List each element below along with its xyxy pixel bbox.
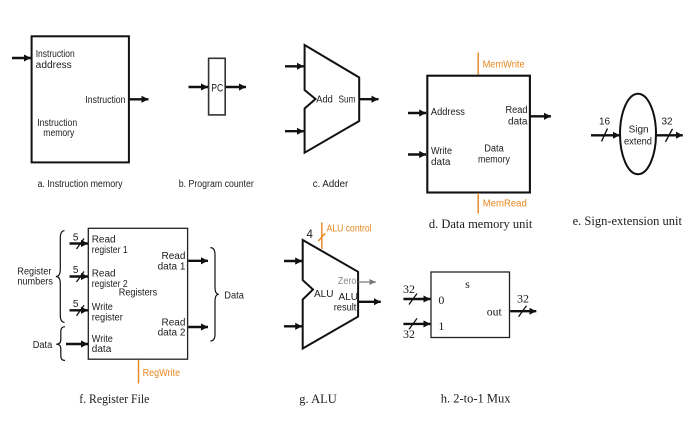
svg-text:f. Register File: f. Register File (79, 392, 149, 406)
svg-text:32: 32 (403, 327, 415, 341)
svg-text:data 2: data 2 (158, 327, 186, 338)
wire: PC output arrow (226, 86, 247, 88)
svg-text:5: 5 (73, 233, 79, 244)
brace: register numbers group (56, 231, 65, 323)
svg-text:1: 1 (438, 319, 444, 333)
svg-text:ALU control: ALU control (327, 224, 372, 235)
svg-text:Add: Add (316, 95, 333, 106)
sign-extension ellipse (e) (620, 94, 656, 174)
svg-text:MemRead: MemRead (483, 199, 527, 210)
program counter box PC (b) (209, 58, 226, 115)
adder body (c) (305, 45, 360, 153)
svg-text:0: 0 (438, 293, 444, 307)
svg-text:Read: Read (161, 251, 185, 262)
bus slash mux input 0 (409, 294, 417, 305)
svg-text:RegWrite: RegWrite (143, 368, 181, 379)
svg-text:c. Adder: c. Adder (313, 179, 349, 190)
brace: data outputs group (210, 248, 218, 341)
svg-text:Sign: Sign (629, 125, 649, 136)
wire: ALU input arrow top (284, 260, 302, 262)
brace: data input (56, 327, 65, 361)
register file box (f) (88, 228, 187, 359)
svg-text:register: register (92, 312, 124, 323)
svg-text:numbers: numbers (17, 276, 53, 287)
mux box (h) (431, 272, 510, 338)
svg-text:Registers: Registers (119, 288, 158, 299)
bus slash 5 (77, 305, 85, 316)
wire: adder sum output arrow (360, 98, 379, 100)
wire: instruction output arrow (130, 98, 149, 100)
svg-text:extend: extend (624, 137, 652, 148)
svg-text:d. Data memory unit: d. Data memory unit (429, 217, 533, 231)
wire: mux output arrow (510, 310, 536, 312)
wire: adder input arrow bottom (285, 130, 304, 132)
svg-text:ALU: ALU (314, 289, 333, 300)
wire: MemRead control line (477, 193, 479, 214)
bus slash 5 (77, 272, 85, 283)
svg-text:b. Program counter: b. Program counter (179, 179, 255, 190)
wire: read data output arrow (530, 115, 551, 117)
svg-text:Data: Data (224, 291, 244, 302)
svg-text:Address: Address (431, 107, 465, 118)
bus slash output (666, 129, 673, 142)
svg-text:Read: Read (506, 105, 528, 116)
svg-text:Read: Read (92, 235, 116, 246)
wire: ALU input arrow bottom (284, 325, 302, 327)
svg-text:16: 16 (599, 117, 611, 128)
wire: write register input arrow (70, 309, 89, 311)
wire: ALU result output arrow (358, 301, 381, 303)
svg-text:data: data (92, 344, 112, 355)
wire: adder input arrow top (285, 65, 304, 67)
svg-text:PC: PC (211, 83, 223, 95)
wire: read data 2 output arrow (188, 326, 208, 328)
svg-text:Write: Write (92, 302, 113, 313)
svg-text:Data: Data (33, 340, 53, 351)
wire: sign-extend output arrow (656, 134, 683, 136)
svg-text:32: 32 (517, 292, 529, 306)
bus slash ALU control (318, 233, 325, 241)
svg-text:5: 5 (73, 299, 79, 310)
wire: read register 2 input arrow (70, 275, 89, 277)
svg-text:a. Instruction memory: a. Instruction memory (38, 179, 123, 190)
svg-text:out: out (487, 305, 503, 319)
svg-text:Write: Write (431, 146, 452, 157)
wire: address input arrow (408, 112, 426, 114)
bus slash input (602, 129, 608, 142)
svg-text:5: 5 (73, 265, 79, 276)
wire: MemWrite control line (477, 53, 479, 75)
svg-text:Data: Data (484, 144, 504, 155)
wire: read register 1 input arrow (70, 242, 89, 244)
svg-text:register 1: register 1 (92, 245, 128, 256)
svg-text:e. Sign-extension unit: e. Sign-extension unit (573, 214, 683, 228)
ALU body (g) (303, 240, 358, 349)
svg-text:Sum: Sum (339, 95, 356, 106)
wire: write data input arrow (66, 343, 88, 345)
data memory box (d) (427, 76, 530, 193)
bus slash 5 (77, 239, 85, 250)
wire: mux input 0 arrow (403, 298, 430, 300)
wire: mux input 1 arrow (403, 323, 430, 325)
svg-text:Zero: Zero (338, 276, 357, 287)
svg-text:memory: memory (478, 155, 510, 166)
svg-text:memory: memory (43, 128, 74, 139)
svg-text:Read: Read (92, 268, 116, 279)
wire: write data input arrow (408, 153, 426, 155)
svg-text:data: data (431, 157, 451, 168)
svg-text:MemWrite: MemWrite (483, 59, 525, 70)
wire: zero output arrow (358, 281, 376, 283)
instruction memory box (a) (32, 36, 129, 162)
svg-text:data: data (508, 117, 528, 128)
svg-text:h. 2-to-1 Mux: h. 2-to-1 Mux (441, 392, 512, 406)
wire: sign-extend input arrow (591, 134, 620, 136)
wire: PC input arrow (189, 86, 209, 88)
bus slash mux input 1 (409, 318, 417, 329)
svg-text:4: 4 (307, 229, 314, 241)
wire: instruction address input arrow (12, 57, 31, 59)
bus slash mux output (519, 306, 527, 317)
svg-text:s: s (465, 277, 470, 291)
svg-text:Instruction: Instruction (36, 49, 75, 60)
svg-text:32: 32 (403, 282, 415, 296)
svg-text:Instruction: Instruction (85, 95, 125, 106)
svg-text:result: result (334, 302, 357, 313)
svg-text:g. ALU: g. ALU (299, 392, 337, 406)
svg-text:data 1: data 1 (158, 262, 186, 273)
wire: RegWrite control line (138, 360, 140, 384)
svg-text:address: address (36, 60, 72, 71)
svg-text:32: 32 (661, 117, 673, 128)
wire: read data 1 output arrow (188, 260, 208, 262)
wire: ALU control line (321, 223, 323, 250)
